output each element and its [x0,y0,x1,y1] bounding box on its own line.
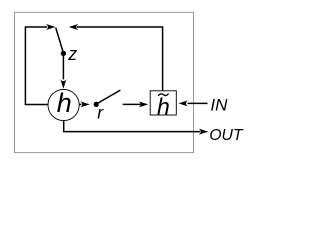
wire OUT [64,121,200,132]
wire h feedback left loop [25,27,48,105]
arrowhead into switch z right contact [69,24,79,30]
unit h circle [48,89,79,120]
arrowhead into h top [60,79,66,89]
switch z blade [56,28,64,53]
arrowhead IN into htilde right [178,100,188,106]
wire h to switch r [79,103,81,105]
node z dot [61,51,66,56]
unit htilde box [150,91,176,115]
wire z to h [62,53,64,79]
arrowhead into switch z left contact [46,24,56,30]
svg-text:h: h [157,93,170,119]
wire htilde top to switch z [77,27,163,91]
switch r blade [97,90,120,103]
svg-text:OUT: OUT [209,127,244,144]
node r dot [94,102,99,107]
svg-text:IN: IN [210,95,228,114]
wire IN [188,102,208,104]
arrowhead into htilde left [139,101,149,107]
svg-text:h: h [57,88,72,118]
arrowhead OUT [199,129,209,135]
wire r to htilde [123,103,141,105]
arrowhead into switch r contact [80,101,90,107]
svg-text:z: z [67,44,77,64]
